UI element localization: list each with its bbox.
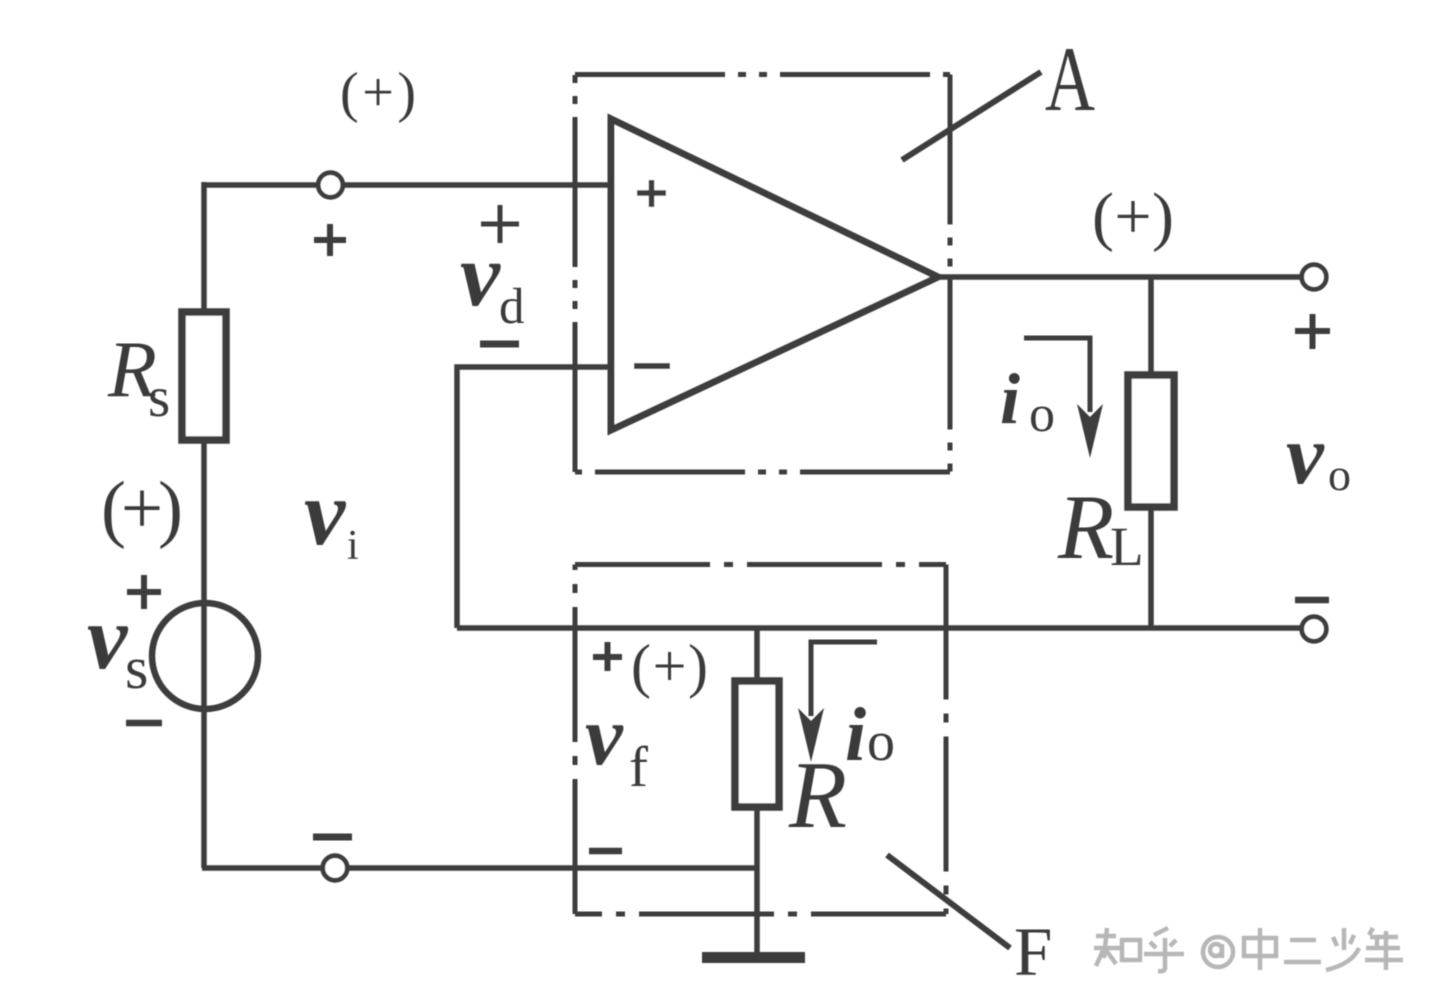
svg-text:(+): (+) (631, 633, 708, 699)
minus mark vs (126, 720, 162, 727)
svg-text:i: i (347, 523, 359, 569)
wire Rs to source (201, 440, 207, 868)
source vs circle (152, 603, 258, 709)
svg-text:(+): (+) (340, 62, 416, 124)
feedback block F box (575, 565, 946, 915)
op-amp A triangle (611, 119, 938, 430)
svg-text:o: o (1328, 449, 1351, 500)
minus mark vf (589, 848, 622, 855)
wire R bottom to ground (754, 807, 760, 961)
svg-text:v: v (585, 689, 624, 783)
svg-text:i: i (845, 693, 866, 777)
svg-text:R: R (1057, 476, 1114, 578)
plus mark vf (593, 642, 622, 671)
current io arrow (output) (1024, 338, 1090, 412)
watermark (1094, 928, 1403, 971)
svg-text:v: v (460, 226, 501, 325)
svg-text:i: i (1000, 359, 1020, 439)
minus mark vd (480, 341, 519, 348)
current io arrow (feedback) (811, 642, 877, 716)
terminal top-left (318, 173, 343, 198)
svg-text:L: L (1110, 516, 1144, 577)
svg-text:v: v (304, 462, 347, 565)
wire source branch vertical upper (201, 182, 207, 313)
svg-text:s: s (125, 635, 148, 701)
svg-text:(+): (+) (1092, 180, 1174, 253)
svg-text:(+): (+) (101, 467, 183, 550)
plus mark at top-left terminal (314, 224, 346, 256)
svg-text:o: o (867, 711, 895, 773)
svg-text:v: v (1286, 408, 1325, 502)
svg-text:f: f (629, 736, 648, 799)
terminal top-right (1302, 265, 1327, 290)
wire RL top (1148, 277, 1154, 376)
wire RL bottom (1148, 507, 1154, 628)
resistor RL (1128, 375, 1174, 507)
minus mark vo (1295, 597, 1329, 604)
svg-text:v: v (87, 587, 129, 688)
arrowhead io output (1077, 404, 1103, 458)
plus mark vo (1295, 314, 1330, 349)
resistor Rs (182, 312, 226, 440)
plus mark vd (481, 205, 519, 243)
op-amp - input pin (634, 363, 670, 369)
minus mark at bottom-left terminal (313, 834, 352, 841)
svg-text:d: d (499, 279, 525, 335)
wire feedback horizontal (457, 625, 1314, 631)
resistor R (735, 681, 779, 807)
terminal bottom-left (323, 856, 348, 881)
wire top input (source to op-amp +) (204, 182, 612, 188)
wire output (934, 274, 1314, 280)
pointer line to A (902, 72, 1041, 160)
svg-text:A: A (1045, 28, 1095, 130)
plus mark vs (127, 575, 161, 609)
wire bottom left (202, 865, 757, 871)
terminal bottom-right (1302, 617, 1327, 642)
svg-text:F: F (1014, 914, 1052, 990)
svg-text:s: s (148, 366, 170, 429)
op-amp + input pin (637, 180, 666, 207)
svg-text:o: o (1029, 386, 1055, 443)
wire inverting input (457, 367, 612, 628)
pointer line to F (887, 855, 1010, 948)
wire R top (754, 628, 760, 682)
amplifier block A box (575, 75, 950, 473)
ground (702, 952, 805, 963)
svg-text:R: R (788, 742, 847, 848)
